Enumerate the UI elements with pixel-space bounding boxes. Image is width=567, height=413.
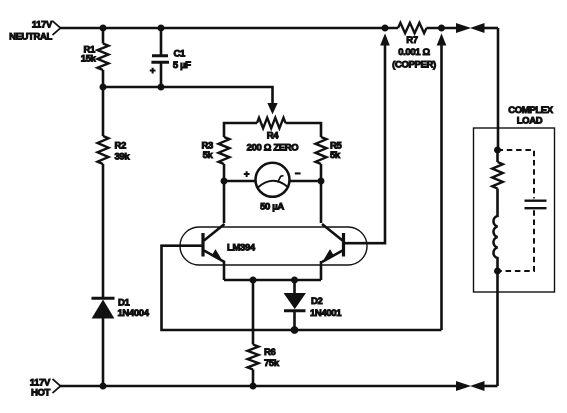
LM394 package outline (stadium) xyxy=(180,227,367,265)
resistor R3 xyxy=(219,137,230,164)
label C1 xyxy=(174,48,187,59)
svg-text:−: − xyxy=(295,169,301,180)
svg-text:200 Ω ZERO: 200 Ω ZERO xyxy=(247,143,299,154)
label R3 xyxy=(202,141,214,152)
label 39k xyxy=(115,152,131,163)
svg-text:39k: 39k xyxy=(115,152,131,163)
svg-text:75k: 75k xyxy=(264,358,280,369)
complex load box xyxy=(474,128,555,292)
svg-text:NEUTRAL: NEUTRAL xyxy=(9,32,52,43)
wire: right sense vertical up to top rail xyxy=(440,45,443,330)
node: 117V HOT input terminal chevron xyxy=(53,379,61,393)
wire: Q2 base to right, up to top rail (sense left) xyxy=(344,45,386,243)
junction dot second rail / C1 xyxy=(158,84,164,90)
capacitor C1 with wires xyxy=(151,28,169,87)
svg-text:15k: 15k xyxy=(81,54,97,65)
junction dot top rail / R1 xyxy=(100,25,106,31)
junction dot top rail / sense wire right xyxy=(439,25,445,31)
junction dot bottom rail / R6 xyxy=(250,383,256,389)
current arrow right on top rail xyxy=(457,24,470,33)
resistor R5 xyxy=(316,137,327,164)
svg-text:+: + xyxy=(244,169,250,180)
wire: Q1 base detour (left, down, across to right sense wire) xyxy=(162,246,442,330)
junction dot load bottom xyxy=(495,268,501,274)
label R5 xyxy=(330,141,343,152)
wire: top 117V NEUTRAL rail xyxy=(60,27,457,30)
transistor Q2 (right half of LM394) xyxy=(322,224,344,262)
resistor R1 with wires xyxy=(98,28,109,87)
svg-text:D2: D2 xyxy=(311,296,323,307)
label 1N4001 xyxy=(310,308,342,319)
label 5uF xyxy=(173,60,191,71)
junction dot top rail / sense wire left xyxy=(382,25,388,31)
label COMPLEX xyxy=(508,105,554,116)
wire: meter rail right segment xyxy=(290,180,321,183)
svg-text:1N4004: 1N4004 xyxy=(118,308,150,319)
svg-text:R6: R6 xyxy=(264,347,276,358)
svg-text:HOT: HOT xyxy=(31,388,51,399)
svg-text:5k: 5k xyxy=(203,150,214,161)
resistor R7 (in top rail) xyxy=(398,23,427,33)
wire: R3 to meter rail to left collector xyxy=(223,164,226,223)
svg-text:5k: 5k xyxy=(330,150,341,161)
svg-text:R7: R7 xyxy=(406,35,418,46)
svg-text:(COPPER): (COPPER) xyxy=(392,60,436,71)
label 200 ohm ZERO xyxy=(247,143,299,154)
resistor R6 with wires xyxy=(248,280,259,386)
label (COPPER) xyxy=(392,60,436,71)
junction dot emitter rail / R6 xyxy=(250,277,256,283)
junction dot load top xyxy=(495,147,501,153)
wire: R5 to meter rail to right collector xyxy=(320,164,323,223)
label 0.001 ohm xyxy=(398,47,430,58)
label 117V (neutral) xyxy=(32,20,53,31)
label + polarity of C1 xyxy=(150,66,156,77)
label 75k xyxy=(264,358,280,369)
wire: bottom 117V HOT rail xyxy=(60,385,457,388)
svg-text:COMPLEX: COMPLEX xyxy=(508,105,554,116)
junction dot bottom rail / D1 xyxy=(100,383,106,389)
label LOAD xyxy=(517,115,543,126)
label 1N4004 xyxy=(118,308,150,319)
label - polarity of meter xyxy=(295,169,301,180)
diode D1 1N4004 (pointing up) xyxy=(92,298,115,386)
resistor in load (series R) xyxy=(492,150,503,189)
wire: meter rail left segment xyxy=(224,180,255,183)
junction dot emitter rail / D2 xyxy=(292,277,298,283)
arrowhead up at top of Q2 base sense wire xyxy=(381,35,389,45)
svg-text:C1: C1 xyxy=(174,48,187,59)
label 117V (hot) xyxy=(30,378,51,389)
label D1 xyxy=(118,298,131,309)
label NEUTRAL xyxy=(9,32,52,43)
svg-text:117V: 117V xyxy=(32,20,53,31)
svg-text:1N4001: 1N4001 xyxy=(310,308,342,319)
label 5k (R3) xyxy=(203,150,214,161)
label D2 xyxy=(311,296,323,307)
node: 117V NEUTRAL input terminal chevron xyxy=(53,21,61,35)
label 50 uA xyxy=(260,202,284,213)
bracket: R4 top line with corners to columns xyxy=(224,123,321,137)
wire: load bottom down to bottom rail corner xyxy=(496,271,499,386)
label LM394 xyxy=(227,243,256,254)
wire: emitter rail xyxy=(224,279,321,282)
label 5k (R5) xyxy=(330,150,341,161)
svg-text:5 µF: 5 µF xyxy=(173,60,191,71)
svg-text:R4: R4 xyxy=(267,131,280,142)
resistor R2 with wires xyxy=(98,87,109,298)
svg-text:50 µA: 50 µA xyxy=(260,202,284,213)
label R7 xyxy=(406,35,418,46)
resistor R4 200 ohm pot xyxy=(257,118,286,129)
arrowhead up at top of right sense wire xyxy=(437,35,445,45)
label R1 xyxy=(84,45,97,56)
wire: load feed from top rail down into box xyxy=(497,28,500,150)
label 15k xyxy=(81,54,97,65)
svg-text:D1: D1 xyxy=(118,298,131,309)
inductor in load (series L) xyxy=(493,189,497,272)
svg-text:0.001 Ω: 0.001 Ω xyxy=(398,47,430,58)
junction dot second rail / R1-R2 xyxy=(100,84,106,90)
label R4 xyxy=(267,131,280,142)
current arrow left on bottom rail + wire from load corner xyxy=(472,382,498,391)
label R2 xyxy=(115,141,127,152)
wiper arrow into R4 xyxy=(268,104,277,114)
current arrow right on bottom rail xyxy=(457,382,470,391)
svg-text:+: + xyxy=(150,66,156,77)
wire: Q1 emitter down to emitter rail xyxy=(223,261,226,280)
svg-text:R2: R2 xyxy=(115,141,127,152)
svg-text:LOAD: LOAD xyxy=(517,115,543,126)
junction dot D2 cathode / base line xyxy=(291,327,298,334)
label R6 xyxy=(264,347,276,358)
junction dot meter rail left xyxy=(221,178,227,184)
meter M1 50uA (circle, scale arc, needle) xyxy=(256,163,290,197)
diode D2 1N4001 (pointing down) xyxy=(284,280,306,330)
label HOT xyxy=(31,388,51,399)
junction dot top rail / C1 xyxy=(158,25,164,31)
svg-text:LM394: LM394 xyxy=(227,243,256,254)
dashed branch with capacitor in load xyxy=(498,150,547,271)
junction dot meter rail right xyxy=(318,178,324,184)
wire: second rail from R1/R2 node to R4 wiper xyxy=(103,87,273,104)
wire: Q2 emitter down to emitter rail xyxy=(320,261,323,280)
current arrow left on top rail + wire to load corner xyxy=(472,24,499,33)
label + polarity of meter xyxy=(244,169,250,180)
transistor Q1 (left half of LM394) xyxy=(203,224,225,262)
